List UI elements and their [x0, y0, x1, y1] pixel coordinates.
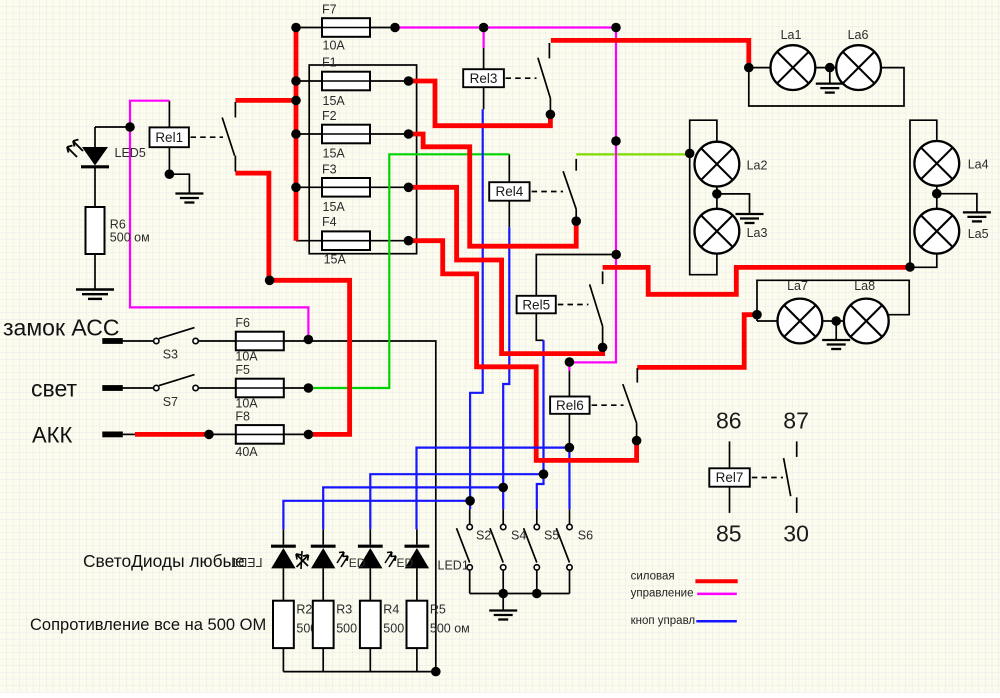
node: La2-La3 mid junction	[712, 189, 722, 199]
wire: La2-La3 left bus and loop	[690, 120, 717, 275]
wire: S6 button upper stub	[569, 509, 571, 524]
wire: LED3 to R3	[322, 568, 324, 600]
fuse F7	[322, 18, 370, 37]
svg-text:La3: La3	[747, 226, 768, 240]
svg-text:LED1: LED1	[438, 559, 469, 573]
wire: Rel5 coil bottom black segment	[536, 313, 543, 340]
wire: F3 left lead	[296, 186, 322, 188]
node: Rel3 control tap	[479, 23, 489, 33]
ground at La1-La6	[816, 84, 844, 93]
wire: F8 output stub	[283, 433, 308, 435]
node: LED2 arrow marks	[337, 552, 348, 567]
svg-text:La8: La8	[854, 279, 875, 293]
svg-text:S7: S7	[163, 395, 178, 409]
wire: green F5 to Rel4 coil	[308, 154, 509, 388]
svg-text:500 ом: 500 ом	[110, 231, 150, 245]
ground at Rel1 coil	[175, 194, 203, 203]
node: red-La4 junction	[905, 262, 915, 272]
node: red corner junction	[265, 276, 275, 286]
node: bottom bus junction	[431, 667, 441, 677]
svg-text:La5: La5	[968, 227, 989, 241]
svg-text:кноп управл: кноп управл	[631, 615, 696, 627]
relay coil Rel6	[550, 397, 590, 414]
node: Rel3 switch output	[546, 110, 556, 120]
wire: F7 left lead	[296, 27, 322, 29]
svg-text:R6: R6	[110, 218, 126, 232]
svg-text:500: 500	[336, 622, 357, 636]
wire: Rel1 dashed link	[191, 136, 224, 138]
wire: AKK terminal stub	[123, 433, 135, 435]
svg-text:30: 30	[783, 520, 809, 546]
switch S4	[490, 524, 506, 570]
node: AKK terminal bar	[102, 432, 123, 438]
wire: red Rel6 switch to La7-La8	[637, 315, 757, 368]
svg-text:Сопротивление все на 500 ОМ: Сопротивление все на 500 ОМ	[30, 616, 266, 634]
switch Rel5 contact	[590, 271, 603, 345]
svg-text:АКК: АКК	[32, 423, 72, 448]
svg-text:S6: S6	[578, 529, 593, 543]
wire: Rel4 dashed link	[532, 191, 563, 193]
switch Rel6 contact	[623, 368, 638, 438]
wire: LED2 to R4	[369, 568, 371, 600]
node: Rel1 switch feed junction	[291, 96, 301, 106]
wire: blue Rel4 to S4	[503, 227, 509, 509]
wire: blue Rel3 to S2	[470, 109, 483, 509]
LED LED1	[405, 546, 430, 568]
svg-text:S3: S3	[163, 348, 178, 362]
wire: F3 right lead	[370, 186, 409, 188]
wire: S2 button lower stub	[469, 570, 471, 593]
wire: S4 button upper stub	[502, 509, 504, 524]
wire: magenta branch to Rel3 coil	[483, 28, 485, 49]
switch S7	[154, 375, 199, 391]
wire: Rel4 coil top	[508, 154, 510, 182]
svg-text:R5: R5	[430, 603, 446, 617]
svg-text:управление: управление	[631, 588, 694, 600]
LED LED4 (mirrored)	[271, 546, 296, 568]
wire: red AKK feed	[135, 432, 209, 437]
wire: blue Rel6 to S6	[568, 448, 570, 510]
wire: Rel3 dashed link	[506, 77, 537, 79]
ground at La2-La3	[736, 214, 764, 223]
switch S3	[154, 328, 199, 344]
node: magenta corner junction	[611, 23, 621, 33]
wire: LED4 anode stub	[282, 529, 284, 544]
wire: R4 to bottom bus	[369, 648, 371, 672]
node: Rel4 switch output	[571, 216, 581, 226]
node: LED5-magenta junction	[125, 122, 135, 132]
LED LED2	[358, 546, 383, 568]
wire: La1 left node down-around to La6 right	[749, 68, 904, 106]
node: S6 blue junction	[565, 443, 575, 453]
ground at La4-La5	[963, 212, 991, 221]
node: F2 output junction	[404, 129, 414, 139]
svg-text:LED5: LED5	[115, 146, 146, 160]
wire: svet terminal to S7	[123, 387, 154, 389]
wire: magenta F6 to Rel1 coil and LED5	[130, 101, 308, 340]
wire: LED5 cathode to R6	[94, 166, 96, 207]
wire: resistor bottom bus	[283, 671, 435, 673]
switch Rel4 contact	[563, 159, 576, 219]
svg-text:Rel4: Rel4	[496, 184, 524, 199]
wire: Rel4 coil bottom black segment	[508, 201, 510, 228]
node: La7-La8 mid junction	[831, 316, 841, 326]
svg-text:S5: S5	[544, 529, 559, 543]
svg-text:S2: S2	[476, 529, 491, 543]
LED LED3	[311, 546, 336, 568]
wire: red F1 to Rel3 switch	[409, 81, 551, 126]
ground at button bus	[489, 611, 517, 620]
svg-text:R2: R2	[296, 603, 312, 617]
svg-text:R4: R4	[383, 603, 399, 617]
wire: blue branch to LED2	[370, 474, 543, 529]
wire: La2 to La3 middle	[716, 186, 718, 209]
relay coil Rel7	[709, 468, 750, 486]
svg-text:свет: свет	[31, 376, 77, 402]
node: F2 bus junction	[291, 129, 301, 139]
svg-text:85: 85	[716, 520, 742, 546]
node: F4 output junction	[404, 236, 414, 246]
wire: red fuse supply bus	[294, 28, 299, 241]
node: magenta-Rel5 junction	[611, 250, 621, 260]
wire: S5 button lower stub	[536, 570, 538, 593]
wire: ground bus stem	[502, 594, 504, 611]
svg-text:40A: 40A	[235, 445, 258, 459]
wire: LED2 anode stub	[369, 529, 371, 544]
wire: La1-La6 ground stem	[829, 68, 831, 84]
wire: La7-La8 ground stem	[835, 321, 837, 340]
wire: red Rel5 switch to La4-La5	[603, 267, 910, 294]
wire: S7 to F5	[198, 387, 236, 389]
svg-text:87: 87	[783, 407, 809, 433]
svg-text:500 ом: 500 ом	[430, 622, 470, 636]
wire: red F4 to Rel6 switch	[409, 241, 637, 461]
wire: AKK red to F8 stub	[209, 433, 236, 435]
lamp La1	[771, 45, 816, 90]
wire: F1 right lead	[370, 80, 409, 82]
svg-text:Rel1: Rel1	[155, 130, 183, 145]
switch S5	[524, 524, 540, 570]
svg-text:Rel3: Rel3	[470, 71, 498, 86]
wire: R6 to ground	[94, 254, 96, 290]
node: Rel5 switch output	[598, 343, 608, 353]
svg-text:F3: F3	[322, 162, 337, 176]
svg-text:15A: 15A	[323, 200, 346, 214]
wire: Rel7 dashed link	[752, 477, 783, 479]
wire: Rel3 coil bottom black segment	[483, 87, 485, 109]
svg-text:15A: 15A	[323, 147, 346, 161]
switch S6	[556, 524, 572, 570]
ground at R6	[76, 290, 114, 299]
wire: La7-La8 top rail	[757, 280, 909, 321]
node: svet terminal bar	[102, 385, 123, 391]
wire: blue Rel5 to S5	[537, 340, 544, 509]
wire: F4 left lead	[296, 240, 322, 242]
wire: R2 to bottom bus	[282, 648, 284, 672]
node: F3 bus junction	[291, 183, 301, 193]
node: S4 ground bus junction	[498, 589, 508, 599]
svg-text:F6: F6	[235, 316, 250, 330]
svg-text:S4: S4	[511, 529, 526, 543]
fuse F6	[236, 332, 284, 351]
node: S5 blue junction	[539, 469, 549, 479]
relay coil Rel1	[150, 127, 189, 147]
wire: LED5 top lead	[94, 127, 96, 147]
wire: S4 button lower stub	[502, 570, 504, 593]
node: F5 output junction	[304, 383, 314, 393]
wire: La7 to La8 middle	[822, 320, 844, 322]
node: green-La2 junction	[685, 149, 695, 159]
node: F8 output junction	[304, 430, 314, 440]
wire: La4 to La5 middle	[936, 185, 938, 209]
svg-text:10A: 10A	[323, 39, 346, 53]
lamp La6	[836, 45, 881, 90]
node: F1 output junction	[404, 76, 414, 86]
wire: red F3 to Rel5 switch	[409, 187, 603, 353]
wire: blue branch to LED3	[323, 487, 503, 529]
wire: LED1 to R5	[416, 568, 418, 600]
wire: F2 left lead	[296, 133, 322, 135]
wire: Rel7 pin 86 lead	[729, 441, 731, 468]
wire: Rel6 coil top black segment	[568, 371, 570, 397]
svg-text:F4: F4	[322, 215, 337, 229]
wire: La7 left lead	[757, 320, 778, 322]
node: S4 blue junction	[498, 483, 508, 493]
node: La1 left junction	[744, 63, 754, 73]
node: F7 output junction	[390, 23, 400, 33]
wire: red F8 to Rel1 switch	[235, 173, 349, 434]
svg-text:силовая: силовая	[631, 571, 675, 583]
lamp La5	[914, 209, 959, 254]
node: F7 left junction	[291, 23, 301, 33]
resistor R3	[313, 601, 334, 648]
fuse F1	[322, 72, 370, 91]
svg-text:R3: R3	[336, 603, 352, 617]
wire: button ground bus	[470, 593, 570, 595]
node: S2 blue junction	[465, 496, 475, 506]
lamp La2	[695, 142, 740, 187]
fuse F2	[322, 125, 370, 144]
resistor R4	[360, 601, 381, 648]
wire: La1 to La6 middle leads	[815, 67, 836, 69]
node: LED1 arrow marks	[385, 552, 396, 567]
node: La1-La6 mid junction	[825, 63, 835, 73]
svg-text:ED: ED	[397, 556, 414, 570]
svg-text:F8: F8	[235, 410, 250, 424]
wire: F5 output stub	[283, 387, 308, 389]
wire: LED5 anode to magenta net	[95, 126, 130, 128]
svg-text:La6: La6	[848, 28, 869, 42]
svg-text:F7: F7	[322, 3, 337, 17]
node: La4-La5 mid junction	[932, 189, 942, 199]
svg-text:замок АСС: замок АСС	[3, 315, 119, 341]
lamp La8	[844, 299, 889, 344]
relay coil Rel4	[489, 182, 529, 201]
wire: Rel6 coil bottom black segment	[568, 414, 570, 448]
wire: LED4 to R2	[282, 568, 284, 600]
wire: R5 to bottom bus	[416, 648, 418, 672]
node: AKK feed junction	[204, 430, 214, 440]
svg-text:F1: F1	[322, 56, 337, 70]
wire: R3 to bottom bus	[322, 648, 324, 672]
switch Rel1 contact	[222, 102, 235, 172]
wire: S2 button upper stub	[469, 509, 471, 524]
wire: LED3 anode stub	[322, 529, 324, 544]
svg-text:10A: 10A	[235, 350, 258, 364]
resistor R5	[407, 601, 428, 648]
node: fuse block outline	[309, 65, 416, 254]
wire: F7 right lead	[370, 27, 395, 29]
svg-text:Rel6: Rel6	[556, 398, 584, 413]
svg-text:La7: La7	[787, 279, 808, 293]
wire: Rel6 dashed link	[592, 404, 624, 406]
resistor R6	[86, 207, 105, 254]
wire: S3 to F6	[198, 340, 236, 342]
svg-text:La4: La4	[968, 158, 989, 172]
wire: blue Rel6 branch to LED1	[417, 448, 570, 530]
wire: Rel3 coil top black segment	[483, 48, 485, 69]
svg-text:Rel5: Rel5	[522, 297, 550, 312]
relay coil Rel3	[463, 69, 504, 87]
wire: Rel5 coil top from magenta node	[536, 255, 616, 296]
switch Rel7 contact	[784, 441, 797, 513]
wire: red F2 to Rel4 switch	[409, 134, 577, 246]
wire: La2-La3 ground branch	[717, 194, 750, 214]
wire: F4 right lead	[370, 240, 409, 242]
node: F6 output junction	[304, 335, 314, 345]
node: LED4-LED3 arrow marks	[296, 551, 309, 569]
svg-text:La2: La2	[747, 159, 768, 173]
fuse F5	[236, 379, 284, 398]
wire: magenta F7 control bus	[395, 28, 616, 372]
node: ACC terminal bar	[102, 338, 123, 344]
wire: red Rel1 switch to fuse bus	[235, 98, 296, 103]
wire: red Rel3 switch to La1-La6	[551, 40, 749, 67]
wire: Rel1 coil top	[168, 101, 170, 128]
switch S2	[457, 524, 473, 570]
lamp La3	[695, 209, 740, 254]
node: magenta junction upper	[611, 136, 621, 146]
node: Rel6 switch output	[632, 436, 642, 446]
node: magenta-Rel6 junction	[565, 357, 575, 367]
svg-text:СветоДиоды любые: СветоДиоды любые	[83, 551, 245, 571]
svg-text:F5: F5	[235, 363, 250, 377]
resistor R2	[273, 601, 294, 648]
wire: Rel1 coil bottom to ground	[169, 147, 189, 193]
lamp La4	[914, 141, 959, 186]
lamp La7	[778, 299, 823, 344]
wire: La4-La5 ground branch	[937, 194, 977, 213]
node: F1 bus junction	[291, 76, 301, 86]
node: S5 ground bus junction	[532, 589, 542, 599]
svg-text:ED: ED	[349, 556, 366, 570]
wire: blue branch to LED4	[283, 501, 470, 530]
fuse F4	[322, 231, 370, 250]
svg-text:Rel7: Rel7	[716, 470, 744, 485]
wire: green Rel4 switch to La2	[576, 153, 690, 155]
node: Rel1 ground corner junction	[165, 169, 175, 179]
wire: S6 button lower stub	[569, 570, 571, 593]
switch Rel3 contact	[538, 43, 551, 112]
wire: S5 button upper stub	[536, 509, 538, 524]
wire: Rel7 pin 85 lead	[729, 487, 731, 513]
wire: ACC terminal to S3	[123, 340, 154, 342]
wire: La4-La5 left bus and loop	[910, 120, 937, 267]
wire: F6 output to vertical drop	[283, 341, 436, 672]
relay coil Rel5	[517, 296, 556, 314]
wire: La1 left lead	[749, 67, 771, 69]
wire: LED1 anode stub	[416, 529, 418, 544]
fuse F3	[322, 178, 370, 197]
fuse F8	[236, 425, 284, 444]
wire: F2 right lead	[370, 133, 409, 135]
svg-text:15A: 15A	[323, 94, 346, 108]
node: red-La7 junction	[752, 310, 762, 320]
ground at La7-La8	[822, 340, 850, 349]
wire: F1 left lead	[296, 80, 322, 82]
svg-text:La1: La1	[781, 28, 802, 42]
wire: Rel5 dashed link	[558, 304, 589, 306]
node: F3 output junction	[404, 183, 414, 193]
svg-text:86: 86	[716, 407, 742, 433]
LED LED5	[67, 140, 109, 167]
svg-text:10A: 10A	[235, 397, 258, 411]
svg-text:15A: 15A	[324, 253, 347, 267]
svg-text:F2: F2	[322, 109, 337, 123]
svg-text:500: 500	[383, 622, 404, 636]
